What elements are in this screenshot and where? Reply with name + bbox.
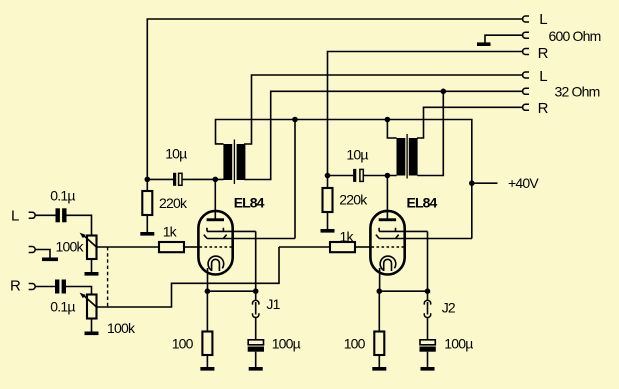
svg-text:10µ: 10µ bbox=[346, 147, 368, 163]
ground 220k stage1 bbox=[140, 232, 154, 236]
capacitor 0.1u L bbox=[56, 208, 60, 222]
output terminal C600 bbox=[523, 32, 530, 38]
node cap2 junction bbox=[325, 173, 331, 179]
svg-text:10µ: 10µ bbox=[165, 146, 187, 162]
jumper J1 bbox=[255, 291, 257, 300]
wire stage2 anode row bbox=[328, 176, 397, 220]
svg-text:220k: 220k bbox=[159, 195, 188, 211]
node anode1 bbox=[213, 177, 219, 183]
svg-text:L: L bbox=[11, 208, 19, 225]
tube V2 envelope bbox=[370, 211, 404, 275]
tube V1 g2 bbox=[204, 235, 295, 239]
svg-text:100: 100 bbox=[344, 335, 366, 351]
tube V1 cathode bbox=[208, 256, 224, 270]
svg-text:J2: J2 bbox=[442, 300, 456, 316]
wire V1 g2 to rail bbox=[294, 120, 296, 239]
svg-text:L: L bbox=[539, 68, 547, 85]
wire V2 cathode lead bbox=[379, 268, 381, 291]
svg-text:600 Ohm: 600 Ohm bbox=[549, 28, 601, 44]
svg-text:220k: 220k bbox=[339, 192, 368, 208]
capacitor 100u stage2 bbox=[420, 340, 435, 345]
wire L32 line bbox=[244, 75, 524, 144]
resistor 100 stage1 bbox=[206, 291, 208, 331]
wire input ground bbox=[35, 250, 50, 258]
capacitor 10u stage1 bbox=[173, 173, 176, 186]
output terminal C32 bbox=[523, 88, 530, 94]
input terminal common bbox=[29, 247, 36, 253]
output terminal L600 bbox=[523, 16, 530, 22]
output terminal R32 bbox=[523, 104, 530, 110]
svg-text:1k: 1k bbox=[163, 224, 178, 240]
potentiometer 100k R bbox=[87, 295, 97, 319]
wire C32 line bbox=[244, 91, 524, 179]
wire pot2 wiper to tube2 grid bbox=[97, 247, 280, 307]
ground 100u stage1 bbox=[249, 367, 263, 371]
resistor 220k stage2 bbox=[327, 176, 329, 189]
wire B+ rail bbox=[216, 120, 472, 184]
ground pot1 bbox=[85, 272, 99, 276]
ground pot2 bbox=[85, 332, 99, 336]
tube V2 cathode bbox=[380, 256, 396, 270]
tube V2 anode bbox=[379, 218, 396, 221]
capacitor 0.1u R bbox=[55, 280, 59, 294]
resistor 1k stage1 bbox=[97, 246, 160, 248]
jumper J2 bbox=[427, 291, 429, 300]
tube V2 heater bbox=[384, 259, 392, 271]
node anode2 bbox=[385, 173, 391, 179]
svg-text:0.1µ: 0.1µ bbox=[50, 188, 75, 204]
tube V1 anode bbox=[207, 218, 224, 221]
tube V2 g1 dashed grid bbox=[372, 246, 404, 248]
svg-text:EL84: EL84 bbox=[407, 194, 438, 210]
resistor 100 stage2 bbox=[378, 291, 380, 331]
svg-text:R: R bbox=[538, 100, 549, 117]
resistor 1k stage2 bbox=[279, 246, 330, 248]
tube V2 g2 bbox=[376, 235, 472, 239]
ground 100 stage2 bbox=[372, 367, 386, 371]
resistor 220k stage1 bbox=[146, 179, 148, 191]
node cathode1 bbox=[205, 288, 211, 294]
wire V2 g3 to cathode bbox=[427, 231, 429, 291]
potentiometer 100k L bbox=[87, 236, 97, 260]
output terminal R600 bbox=[523, 49, 530, 55]
wire +40V stub bbox=[472, 182, 498, 184]
svg-text:100k: 100k bbox=[56, 239, 85, 255]
svg-text:100µ: 100µ bbox=[444, 335, 473, 351]
wire C600 line with ground stub bbox=[485, 35, 524, 43]
tube V1 heater bbox=[212, 259, 220, 271]
capacitor 100u stage1 bbox=[248, 340, 263, 345]
transformer T2 core bbox=[406, 134, 408, 179]
gang dashed link bbox=[107, 247, 109, 307]
input terminal R bbox=[29, 284, 36, 290]
wire R input bbox=[35, 286, 55, 288]
svg-text:100µ: 100µ bbox=[272, 335, 301, 351]
svg-text:100k: 100k bbox=[107, 320, 136, 336]
transformer T2 primary winding bbox=[397, 138, 406, 176]
wire V2 cathode bus bbox=[380, 290, 428, 292]
node cathode1 J1 bbox=[253, 288, 259, 294]
node +40V bbox=[469, 180, 475, 186]
tube V1 g1 dashed grid bbox=[200, 246, 232, 248]
wire secondary2 bottom riser bbox=[417, 91, 443, 175]
node sec2 common bbox=[441, 89, 447, 95]
node cathode2 bbox=[377, 288, 383, 294]
node primary2 rail bbox=[385, 117, 391, 123]
wire L cap to pot1 bbox=[67, 215, 92, 235]
svg-text:32 Ohm: 32 Ohm bbox=[555, 84, 600, 100]
ground 220k stage2 bbox=[321, 229, 335, 233]
ground 100 stage1 bbox=[200, 367, 214, 371]
input terminal L bbox=[29, 212, 36, 218]
transformer T1 secondary winding bbox=[237, 144, 246, 180]
wire R32 line bbox=[417, 107, 524, 138]
node anode1/cap junction bbox=[145, 177, 151, 183]
svg-text:+40V: +40V bbox=[508, 175, 539, 191]
wire R cap to pot2 bbox=[66, 287, 92, 295]
wire L input bbox=[35, 214, 55, 216]
wire L600 top line bbox=[147, 19, 523, 179]
ground 600 Ohm common bbox=[477, 42, 491, 46]
wire V1 cathode lead bbox=[207, 268, 209, 291]
svg-text:EL84: EL84 bbox=[234, 194, 265, 210]
ground 100u stage2 bbox=[421, 367, 435, 371]
wire V1 g3 to cathode bbox=[255, 231, 257, 291]
node cathode2 J2 bbox=[425, 288, 431, 294]
svg-text:R: R bbox=[10, 278, 21, 295]
ground input bbox=[42, 258, 58, 262]
wire +40V to tube2 g2 bbox=[471, 183, 473, 238]
transformer T1 primary winding bbox=[223, 144, 232, 180]
svg-text:0.1µ: 0.1µ bbox=[50, 299, 75, 315]
tube V1 envelope bbox=[198, 211, 232, 275]
svg-text:1k: 1k bbox=[340, 229, 355, 245]
transformer T1 core bbox=[233, 140, 235, 185]
svg-text:J1: J1 bbox=[266, 296, 280, 312]
wire stage1 anode row bbox=[147, 179, 223, 219]
svg-text:100: 100 bbox=[172, 335, 194, 351]
tube V2 g3 bbox=[379, 228, 427, 232]
output terminal L32 bbox=[523, 72, 530, 78]
capacitor 10u stage2 bbox=[353, 169, 356, 182]
wire R600 line bbox=[328, 52, 524, 176]
node g2-1 rail bbox=[292, 117, 298, 123]
transformer T2 secondary winding bbox=[409, 138, 418, 176]
svg-text:R: R bbox=[538, 45, 549, 62]
wire transformer2 primary top bbox=[387, 120, 396, 139]
svg-text:L: L bbox=[539, 11, 547, 28]
tube V1 g3 bbox=[207, 228, 256, 232]
wire V1 cathode bus bbox=[207, 290, 255, 292]
